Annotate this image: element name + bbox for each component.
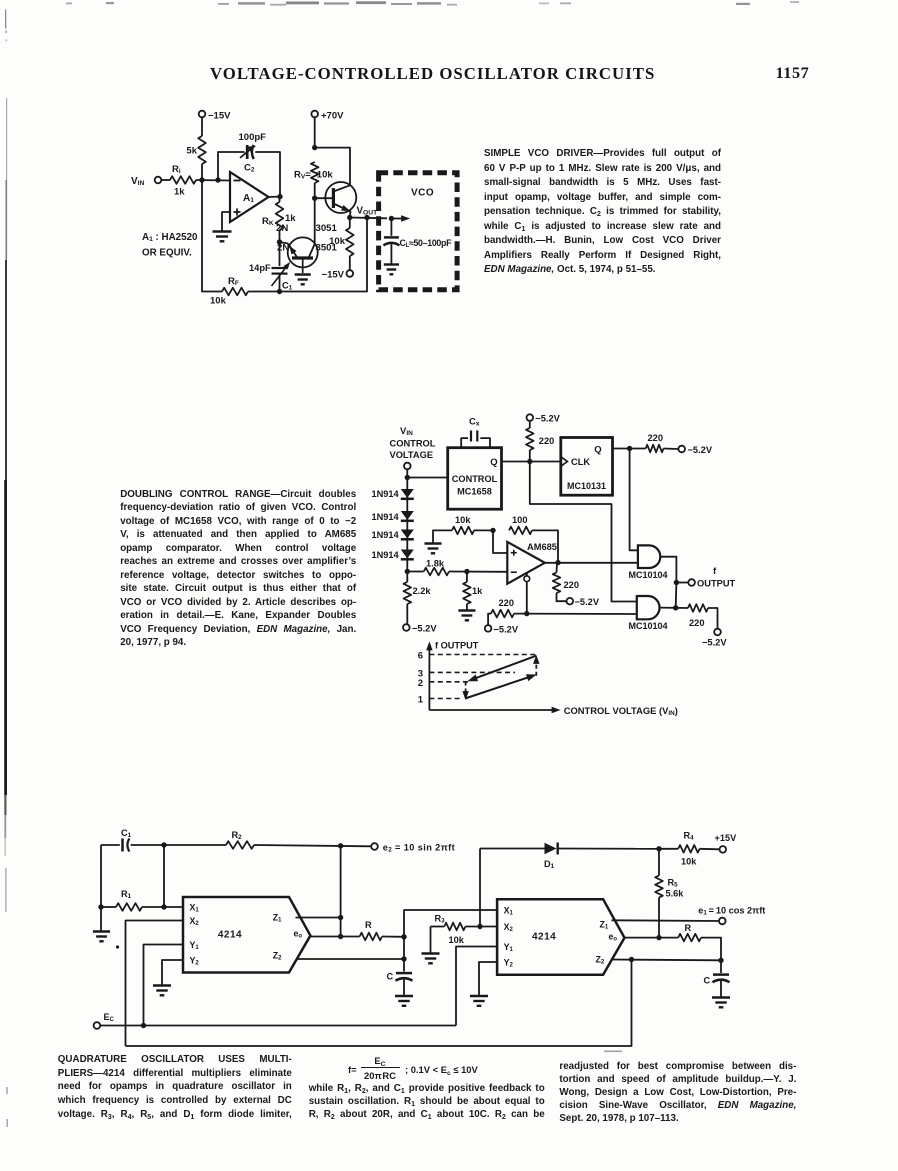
terminal -5.2V (lower gate) — [702, 629, 727, 648]
ground inside VCO box — [384, 265, 399, 275]
terminal f OUTPUT — [676, 566, 735, 589]
svg-text:4214: 4214 — [218, 930, 242, 941]
wire -15V to node — [201, 117, 203, 136]
node VIN — [405, 475, 410, 480]
transistor Q2 2N3501 — [277, 237, 338, 273]
svg-text:2: 2 — [418, 678, 423, 689]
wire Z1 to e1 terminal — [612, 919, 719, 922]
multiplier U2 4214 (right) — [497, 899, 624, 975]
node eo column — [338, 934, 343, 939]
node eo / R5 — [656, 935, 661, 940]
svg-text:10k: 10k — [455, 515, 471, 525]
svg-text:A1: A1 — [243, 193, 254, 204]
wire 2N3501 collector (vertical) — [314, 198, 316, 244]
svg-text:−5.2V: −5.2V — [412, 624, 437, 634]
node lower gate output — [673, 605, 678, 610]
svg-text:R5: R5 — [668, 878, 679, 889]
terminal -5.2V (CLK pullup) — [527, 414, 561, 424]
resistor 220 (CLK pullup) — [526, 421, 554, 462]
resistor R5 5.6k — [655, 849, 684, 938]
diode 1N914 #1 — [372, 489, 414, 499]
op-amp A1 HA2520 — [230, 172, 269, 222]
graph tick 6 — [418, 651, 423, 662]
node X2 (right mult) — [477, 924, 482, 929]
svg-text:MC10104: MC10104 — [629, 621, 668, 631]
svg-text:+15V: +15V — [715, 833, 738, 843]
svg-text:Z1: Z1 — [273, 913, 282, 924]
node f output — [674, 580, 679, 585]
wire Q10131 out — [613, 448, 646, 450]
svg-text:VIN: VIN — [131, 176, 145, 187]
svg-text:VCO: VCO — [411, 188, 434, 199]
svg-text:10k: 10k — [681, 857, 697, 867]
svg-text:R3: R3 — [435, 914, 446, 925]
svg-text:100: 100 — [512, 515, 528, 525]
wire node to opamp inverting input — [196, 179, 230, 182]
svg-text:−5.2V: −5.2V — [688, 445, 713, 455]
wire Y1 to EC bus — [144, 945, 184, 1026]
wire X1 node to multiplier — [164, 906, 183, 908]
wire ground to 10k — [433, 530, 452, 543]
node below diode chain — [405, 569, 410, 574]
svg-text:1N914: 1N914 — [372, 550, 400, 560]
resistor 100 (feedback) — [509, 515, 532, 534]
svg-text:Z2: Z2 — [273, 951, 282, 962]
svg-text:5k: 5k — [186, 146, 197, 157]
svg-text:Y2: Y2 — [190, 956, 200, 967]
svg-text:eo: eo — [294, 929, 303, 940]
ground below C (right) — [712, 998, 730, 1008]
svg-text:e2 = 10 sin 2πft: e2 = 10 sin 2πft — [383, 843, 455, 854]
wire Q to CLK — [502, 461, 561, 463]
wire 5k to Vin node — [201, 164, 203, 180]
svg-text:−5.2V: −5.2V — [494, 624, 519, 634]
resistor Ri 1k — [170, 164, 196, 198]
terminal -5.2V (Q pullup) — [678, 445, 712, 455]
wire node to + input — [493, 530, 507, 553]
svg-text:3051: 3051 — [316, 223, 338, 234]
power terminal +70V — [311, 111, 344, 122]
wire node down to C1 — [279, 242, 281, 266]
svg-text:VIN: VIN — [400, 426, 413, 437]
resistor R (right) — [659, 923, 721, 960]
label VIN CONTROL VOLTAGE — [390, 426, 436, 460]
svg-text:CLK: CLK — [571, 457, 590, 467]
capacitor CL 50-100pF — [383, 219, 452, 264]
node feedback takeoff — [215, 177, 220, 182]
svg-text:Q: Q — [490, 457, 497, 468]
wire RK to node — [279, 197, 281, 242]
resistor 220 (strobe) — [488, 598, 514, 625]
ground below Y2 (right mult) — [470, 996, 488, 1006]
dashed level 3 — [429, 671, 515, 673]
svg-text:220: 220 — [539, 436, 555, 446]
wire strobe pin down — [526, 574, 528, 614]
EC bus wire — [100, 1025, 456, 1027]
node Z2 / C junction — [401, 956, 406, 961]
svg-text:X2: X2 — [190, 916, 200, 927]
node R right — [401, 934, 406, 939]
ground below C (left) — [395, 996, 413, 1006]
label VOUT — [357, 206, 379, 217]
wire Vin terminal to Ri — [161, 179, 170, 181]
wire eo (right mult) — [625, 937, 659, 939]
resistor 10k (emitter load) — [329, 218, 353, 271]
wire C1 to feedback rail — [279, 274, 281, 292]
node Z2 bus junction — [629, 957, 634, 962]
node strobe / 220 rail — [524, 611, 529, 616]
wire EC bus up to Y1 (right mult) — [456, 947, 497, 1026]
wire 2N3501 emitter to node — [280, 242, 289, 244]
node collector feed — [312, 145, 317, 150]
capacitor C (left) — [387, 959, 413, 995]
transistor Q1 2N3051 — [276, 182, 356, 234]
wire 100 to output node — [532, 530, 558, 562]
resistor 2.2k — [404, 572, 432, 625]
resistor R (left) — [360, 920, 404, 940]
terminal -5.2V (220 strobe) — [485, 624, 519, 634]
node VCO input — [389, 216, 394, 221]
wire R node to Z2 node — [403, 937, 405, 959]
ground for 10k feedback — [424, 544, 441, 554]
terminal e1 output — [698, 906, 765, 925]
power terminal -15V (emitter) — [322, 270, 354, 281]
multiplier U1 4214 (left) — [183, 897, 310, 973]
graph tick 3 — [418, 668, 423, 679]
graph tick 2 — [418, 678, 423, 689]
resistor 1.8k — [407, 559, 507, 576]
ground at 2N3501 — [295, 275, 311, 285]
svg-text:f OUTPUT: f OUTPUT — [435, 641, 479, 651]
graph y-axis f OUTPUT — [426, 641, 479, 711]
node C junction (right) — [718, 958, 723, 963]
svg-text:MC10104: MC10104 — [629, 570, 668, 580]
wire C1 node to X1 node — [163, 845, 165, 907]
svg-text:C: C — [387, 972, 394, 982]
diode 1N914 #3 — [372, 530, 414, 541]
EC terminal — [94, 1012, 115, 1029]
svg-text:e1 = 10 cos 2πft: e1 = 10 cos 2πft — [698, 906, 765, 917]
ground below 1k — [458, 611, 475, 621]
svg-text:1k: 1k — [174, 187, 185, 198]
wire VIN node to MC1658 — [407, 477, 447, 479]
AND gate MC10104 (upper) — [629, 545, 668, 579]
wire feedback up and over to C2 — [218, 152, 245, 180]
node e2 takeoff — [338, 843, 343, 848]
op-amp AM685 — [507, 542, 557, 584]
page header — [0, 63, 898, 65]
svg-text:Z2: Z2 — [596, 955, 605, 966]
node + input feed — [490, 528, 495, 533]
wire C2 to output node — [255, 152, 280, 197]
resistor RF 10k — [210, 276, 248, 307]
node 2N3051 base — [312, 196, 317, 201]
node at Ri / 5k junction — [199, 177, 204, 182]
wire node to 2N3051 collector — [315, 148, 350, 186]
node EC / Y1 junction — [141, 1023, 146, 1028]
svg-text:R2: R2 — [232, 830, 243, 841]
svg-text:D1: D1 — [544, 859, 555, 870]
svg-text:C1: C1 — [282, 281, 293, 292]
svg-text:1: 1 — [418, 695, 424, 706]
feedback rail wire (bottom) — [202, 180, 367, 292]
resistor RV 10k — [294, 162, 333, 183]
svg-text:C2: C2 — [244, 163, 255, 174]
svg-text:C: C — [704, 976, 711, 986]
wire Q node to upper gate — [630, 449, 638, 551]
node C1 on feedback rail — [277, 289, 282, 294]
hysteresis rising line — [465, 671, 538, 698]
svg-text:CONTROL: CONTROL — [390, 439, 436, 449]
AND gate MC10104 (lower) — [629, 596, 668, 631]
resistor R4 10k — [659, 831, 719, 867]
svg-text:RV=: RV= — [294, 170, 311, 181]
svg-text:Y1: Y1 — [190, 940, 200, 951]
node RK bottom / 2N3501 emitter — [277, 239, 282, 244]
node VOUT right — [364, 215, 369, 220]
ground for R3 — [421, 927, 439, 964]
diode 1N914 #2 — [372, 511, 414, 522]
capacitor Cx — [461, 417, 490, 448]
node Q10131 — [627, 446, 632, 451]
svg-text:−5.2V: −5.2V — [702, 638, 727, 648]
capacitor C2 100pF (trimmer) — [239, 132, 267, 174]
lower bus wire (X2 to Z2 right) — [126, 960, 632, 1047]
svg-text:−15V: −15V — [208, 111, 231, 122]
svg-text:1k: 1k — [472, 586, 483, 596]
formula f = Ec / 20 pi RC — [348, 1064, 357, 1075]
op-amp output wire to gate — [545, 562, 638, 564]
svg-text:CONTROL: CONTROL — [452, 474, 498, 484]
wire Z2 (right mult) — [611, 959, 721, 962]
svg-text:OR EQUIV.: OR EQUIV. — [142, 248, 192, 259]
diode 1N914 #4 — [372, 550, 414, 561]
wire opamp output — [269, 196, 281, 198]
wire X2 to lower bus — [126, 921, 184, 1047]
svg-text:Z1: Z1 — [600, 920, 609, 931]
wire VOUT rail — [350, 217, 387, 220]
power terminal -15V (top) — [199, 111, 231, 122]
svg-text:EC: EC — [104, 1012, 115, 1023]
resistor R1 — [101, 889, 164, 911]
input terminal VIN — [131, 176, 161, 187]
node output feedback — [555, 560, 560, 565]
resistor 1k — [463, 572, 483, 610]
wire 10k to node — [474, 529, 493, 531]
wire RV to base node — [314, 183, 316, 198]
svg-text:−15V: −15V — [322, 270, 345, 281]
resistor 10k (comparator) — [452, 515, 474, 534]
dashed level 2 — [429, 681, 468, 683]
svg-text:220: 220 — [648, 433, 664, 443]
svg-text:Ri: Ri — [172, 164, 181, 175]
node CLK — [527, 459, 532, 464]
label A1 HA2520 OR EQUIV — [142, 232, 198, 259]
svg-text:6: 6 — [418, 651, 423, 662]
svg-text:AM685: AM685 — [527, 542, 557, 552]
resistor 220 (lower gate pulldown) — [688, 604, 718, 629]
svg-text:X2: X2 — [504, 922, 514, 933]
svg-text:220: 220 — [689, 618, 705, 628]
stray dot artifact — [116, 945, 119, 948]
wire Y2 to ground — [162, 960, 183, 985]
svg-text:10k: 10k — [329, 236, 346, 247]
svg-text:−5.2V: −5.2V — [575, 597, 600, 607]
svg-text:C1: C1 — [121, 828, 132, 839]
svg-text:1N914: 1N914 — [372, 512, 400, 522]
power terminal -5.2V (2.2k) — [403, 624, 437, 634]
svg-text:10k: 10k — [210, 296, 227, 307]
svg-text:R4: R4 — [684, 831, 695, 842]
diode D1 — [480, 843, 659, 871]
hysteresis right jump (dashed up arrow) — [533, 655, 539, 676]
wire left column down to R1 — [100, 845, 102, 907]
wire R node up to X1 (right mult) — [404, 910, 497, 937]
op-amp strobe pin circle — [524, 576, 530, 582]
resistor R3 10k — [431, 914, 498, 946]
capacitor C1 (feedback) — [101, 828, 164, 852]
svg-text:14pF: 14pF — [249, 263, 271, 273]
node Z1 — [338, 915, 343, 920]
hysteresis left jump (dashed down arrow) — [462, 682, 468, 701]
ground at opamp noninverting input — [213, 232, 232, 242]
svg-text:2.2k: 2.2k — [413, 586, 432, 596]
terminal -5.2V (output pulldown) — [567, 597, 600, 607]
svg-text:220: 220 — [499, 598, 515, 608]
dashed level 6 — [429, 654, 537, 656]
IC MC10131 flip-flop — [561, 438, 613, 496]
VCO dashed box — [379, 173, 458, 290]
node VOUT left — [347, 215, 352, 220]
node R4/R5 junction — [656, 846, 661, 851]
svg-text:220: 220 — [564, 580, 580, 590]
svg-text:2N: 2N — [276, 223, 288, 234]
ground below R1 node — [93, 907, 110, 941]
node X1 feed — [161, 904, 166, 909]
resistor 220 (opamp output pulldown) — [553, 563, 579, 602]
svg-text:1N914: 1N914 — [372, 489, 400, 499]
graph x-axis — [429, 705, 678, 717]
svg-text:Q: Q — [594, 445, 601, 456]
input terminal VIN control voltage — [404, 463, 411, 470]
svg-text:R: R — [685, 923, 692, 933]
ground below Y2 (left mult) — [153, 986, 171, 996]
wire Z2 (left mult) — [297, 958, 404, 960]
terminal e2 output — [371, 843, 455, 854]
svg-text:CL≈50–100pF: CL≈50–100pF — [400, 238, 453, 249]
terminal +15V — [715, 833, 738, 853]
wire +70V down to node — [314, 117, 316, 148]
svg-text:Cx: Cx — [469, 417, 480, 428]
dashed level 1 — [429, 698, 463, 700]
svg-text:1.8k: 1.8k — [426, 559, 445, 569]
wire strobe rail to lower gate — [514, 613, 637, 615]
wire eo output — [311, 936, 360, 938]
svg-text:4214: 4214 — [532, 932, 556, 943]
svg-text:MC10131: MC10131 — [567, 481, 606, 491]
svg-text:eo: eo — [609, 932, 618, 943]
wire opamp noninverting input to ground — [222, 212, 230, 231]
node opamp output — [277, 194, 282, 199]
arrow into VCO — [391, 215, 410, 221]
svg-text:Y2: Y2 — [504, 958, 514, 969]
svg-text:X1: X1 — [504, 906, 514, 917]
svg-text:1N914: 1N914 — [372, 530, 400, 540]
wire lower gate output up to f node — [675, 583, 678, 608]
svg-text:R: R — [365, 920, 372, 930]
wire junction column (e2 to eo) — [340, 846, 342, 937]
node 1.8k / 1k junction — [464, 569, 469, 574]
wire D1 branch down to X2 — [479, 849, 481, 927]
svg-text:CONTROL VOLTAGE (VIN): CONTROL VOLTAGE (VIN) — [564, 705, 678, 717]
wire Z1 to junction column — [296, 917, 341, 919]
node C1 right — [161, 842, 166, 847]
svg-text:100pF: 100pF — [239, 132, 267, 143]
svg-text:MC1658: MC1658 — [457, 487, 492, 497]
svg-text:5.6k: 5.6k — [666, 889, 685, 899]
diode chain wire — [406, 478, 408, 572]
capacitor C1 14pF (variable) — [249, 260, 293, 291]
svg-text:10k: 10k — [317, 170, 334, 181]
capacitor C (right) — [704, 960, 730, 996]
svg-text:f: f — [713, 566, 717, 577]
svg-text:X1: X1 — [190, 903, 200, 914]
resistor 220 (Q pullup) — [646, 433, 679, 452]
wire CLK node down to lower gate — [530, 462, 637, 602]
svg-text:+70V: +70V — [321, 111, 344, 122]
node R1 left — [98, 904, 103, 909]
svg-text:−5.2V: −5.2V — [535, 414, 560, 424]
wire upper gate output — [660, 557, 676, 583]
svg-text:Y1: Y1 — [504, 942, 514, 953]
svg-text:RF: RF — [228, 276, 239, 287]
graph tick 1 — [418, 695, 424, 706]
svg-text:VOLTAGE: VOLTAGE — [390, 450, 434, 460]
svg-text:10k: 10k — [449, 935, 465, 945]
svg-text:R1: R1 — [121, 889, 132, 900]
wire lower gate output — [660, 607, 689, 609]
wire VIN to node — [406, 469, 408, 477]
resistor RK 1k — [262, 202, 296, 230]
resistor R2 — [164, 830, 371, 849]
resistor 5k — [186, 136, 205, 164]
svg-text:OUTPUT: OUTPUT — [697, 579, 736, 589]
IC MC1658 (CONTROL) — [448, 448, 502, 510]
svg-text:RK: RK — [262, 216, 274, 227]
svg-text:A1 : HA2520: A1 : HA2520 — [142, 232, 198, 243]
hysteresis falling line — [466, 656, 536, 685]
wire Y2 to ground (right mult) — [479, 962, 497, 995]
